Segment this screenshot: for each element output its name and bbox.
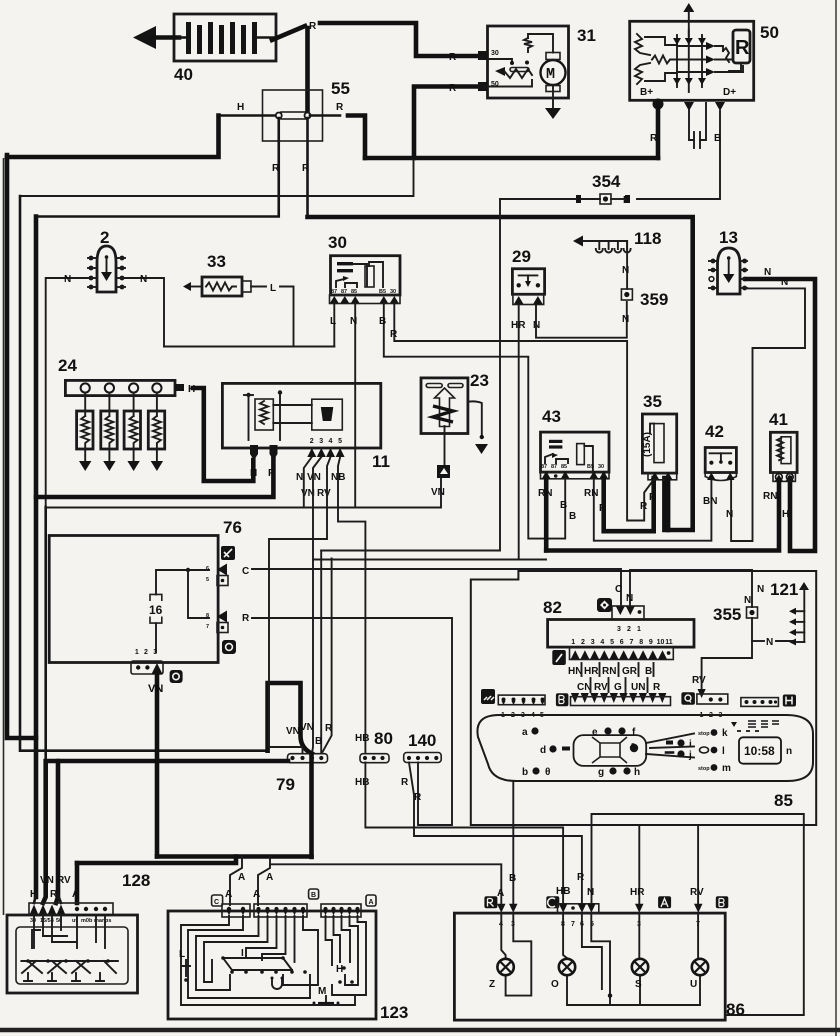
svg-text:121: 121 — [770, 580, 798, 599]
svg-text:41: 41 — [769, 410, 788, 429]
123 strip 2 — [254, 904, 307, 917]
svg-text:6: 6 — [620, 639, 624, 646]
svg-text:7: 7 — [206, 624, 209, 630]
svg-text:354: 354 — [592, 172, 621, 191]
svg-text:3: 3 — [617, 626, 621, 633]
svg-text:B+: B+ — [640, 87, 653, 98]
svg-text:1: 1 — [637, 626, 641, 633]
fuse 16 — [149, 594, 163, 623]
svg-text:N: N — [622, 265, 629, 276]
wire: A drop to 128 — [75, 863, 80, 903]
wire: 23 right to ground arrow — [468, 401, 482, 437]
svg-text:D+: D+ — [723, 87, 736, 98]
svg-text:B: B — [311, 892, 316, 899]
wire: A tap to 123 strip2 — [258, 857, 270, 905]
connector 354 — [576, 172, 630, 204]
svg-text:4: 4 — [600, 639, 604, 646]
svg-text:R: R — [401, 777, 409, 788]
svg-text:13: 13 — [719, 228, 738, 247]
svg-text:N: N — [781, 277, 788, 288]
svg-text:R: R — [336, 102, 344, 113]
ground (starter 31) — [545, 108, 561, 119]
svg-text:3: 3 — [153, 649, 157, 656]
svg-text:N: N — [757, 584, 764, 595]
svg-text:M: M — [546, 66, 555, 83]
sensor 23 — [421, 371, 489, 465]
svg-text:N: N — [64, 274, 71, 285]
wire: R feed line y196 — [20, 160, 414, 196]
svg-text:g: g — [598, 767, 604, 778]
svg-text:B: B — [379, 316, 386, 327]
icon H (panel right) — [783, 695, 796, 707]
fan lines to right indicators — [646, 734, 694, 744]
svg-text:Z: Z — [489, 979, 495, 990]
wire: 43 pin30 R thick to fuse 35 — [604, 478, 654, 531]
76 pin C (6/5) — [206, 564, 249, 586]
svg-text:N: N — [587, 887, 594, 898]
panel top strip left (5 pin) — [498, 695, 545, 719]
svg-text:87: 87 — [551, 464, 557, 470]
panel top strip RV (1 2 3) — [692, 675, 728, 719]
svg-text:N: N — [744, 595, 751, 606]
wire: 29 N to 359 — [536, 302, 627, 338]
wire: fuse 40 to node R (diagonal) — [272, 26, 305, 40]
wire: 43 pin87 RN thick to bus — [544, 479, 549, 551]
wire: 55 H to left bus — [7, 116, 219, 158]
svg-text:35: 35 — [643, 392, 662, 411]
svg-text:k: k — [722, 728, 728, 739]
svg-text:RN: RN — [602, 666, 616, 677]
lamp U — [690, 959, 708, 990]
82-to-panel arrows — [571, 693, 667, 703]
connector 82 — [543, 584, 694, 660]
svg-text:θ: θ — [545, 767, 550, 778]
svg-text:N: N — [764, 267, 771, 278]
mid indicators i j — [666, 741, 673, 745]
svg-text:29: 29 — [512, 247, 531, 266]
svg-text:B: B — [714, 133, 721, 144]
wire: 79 B line y550 — [321, 199, 500, 551]
solenoid 41 — [763, 410, 797, 520]
svg-text:118: 118 — [634, 229, 661, 248]
svg-text:82: 82 — [543, 598, 562, 617]
svg-text:16: 16 — [149, 603, 163, 617]
svg-text:m0b: m0b — [81, 918, 93, 924]
svg-text:2: 2 — [100, 228, 109, 247]
76 pin R (8/7) — [206, 611, 250, 633]
N net line y507 — [46, 478, 441, 508]
wire: 355 down to N / comb — [702, 618, 752, 689]
svg-text:R: R — [272, 163, 280, 174]
starter motor unit 31 — [478, 26, 596, 108]
svg-text:1: 1 — [135, 649, 139, 656]
svg-text:8: 8 — [639, 639, 643, 646]
svg-text:l: l — [722, 746, 725, 757]
icon A (86) — [658, 896, 671, 908]
wire: relay30 pin B to relay43 pin85 — [384, 303, 565, 539]
control unit 76 — [49, 518, 242, 663]
sensor 13 — [709, 228, 747, 294]
svg-text:2: 2 — [310, 438, 314, 445]
86 internal: lamp Z circuit — [501, 913, 505, 959]
svg-text:m: m — [722, 763, 731, 774]
svg-text:140: 140 — [408, 731, 436, 750]
svg-text:HB: HB — [556, 886, 570, 897]
svg-text:R: R — [325, 723, 333, 734]
svg-text:79: 79 — [276, 775, 295, 794]
svg-text:H: H — [782, 509, 789, 520]
alternator B+ pin — [653, 99, 664, 110]
icon C (123) — [212, 895, 223, 906]
svg-text:76: 76 — [223, 518, 242, 537]
wire: 29 HR down and left — [518, 305, 520, 560]
svg-text:C: C — [615, 584, 622, 595]
svg-text:N: N — [350, 316, 357, 327]
svg-text:A: A — [225, 889, 232, 900]
123 ground M — [313, 986, 340, 1005]
svg-text:R: R — [650, 133, 658, 144]
glow plug rail 24 — [58, 356, 195, 396]
svg-text:B: B — [560, 500, 567, 511]
icon connector (76 top right) — [221, 546, 235, 560]
left bus (x20) — [20, 196, 268, 751]
icon A (123) — [366, 895, 376, 906]
connector 80 — [355, 729, 393, 788]
ground comb 121 — [770, 580, 809, 646]
wire: 79 thick down to A bus — [309, 754, 314, 857]
svg-text:stop: stop — [698, 766, 710, 772]
svg-text:A: A — [266, 872, 273, 883]
pin jogs into 128 — [34, 895, 36, 903]
svg-text:A: A — [497, 888, 504, 899]
icon B (123) — [309, 889, 319, 899]
svg-text:R: R — [640, 501, 648, 512]
svg-text:HB: HB — [355, 777, 369, 788]
wire: 76 VN thick to connector 79 — [155, 672, 160, 857]
svg-text:8: 8 — [206, 613, 209, 619]
instrument cluster outer box 85 — [471, 571, 816, 825]
svg-text:B: B — [315, 736, 322, 747]
glow plug resistors 24 — [77, 393, 165, 461]
svg-text:R: R — [735, 37, 750, 59]
alternator 50 — [630, 3, 779, 100]
icon connector (76 right lower) — [222, 640, 236, 654]
icon Q (panel mid-right) — [681, 692, 695, 705]
svg-text:RV: RV — [692, 675, 706, 686]
page right border rule — [835, 0, 837, 1036]
wire: 55 R right drop to big R feed — [306, 118, 309, 217]
fuse box 40 — [133, 14, 276, 84]
ignition distributor 2 — [88, 228, 125, 292]
svg-text:BN: BN — [703, 496, 717, 507]
coil 11 pins H R — [250, 445, 258, 460]
RN thick bus y550 to 41 — [546, 481, 779, 551]
svg-text:85: 85 — [561, 464, 567, 470]
relay 43 — [541, 407, 610, 479]
wire: VN overpass loop to 79 pin3 — [268, 683, 312, 754]
svg-text:N: N — [140, 274, 147, 285]
lamp O — [551, 959, 575, 990]
svg-text:11: 11 — [665, 639, 673, 646]
svg-text:A: A — [72, 889, 79, 900]
svg-text:a: a — [522, 727, 528, 738]
wire: R line 76 — [252, 618, 452, 825]
123 switch H — [336, 964, 354, 984]
svg-text:j: j — [688, 750, 692, 761]
car icon — [574, 735, 647, 766]
sensor 33 — [183, 252, 294, 347]
svg-text:stop: stop — [698, 731, 710, 737]
svg-text:B5: B5 — [587, 464, 594, 470]
svg-text:30: 30 — [390, 289, 396, 295]
wire: A tap to 123 strip1 — [230, 857, 242, 905]
wire: 86 HR from cluster — [638, 825, 640, 903]
svg-text:128: 128 — [122, 871, 150, 890]
A bus lower branch y863 — [77, 857, 236, 864]
wires inside 76 — [156, 570, 209, 594]
svg-text:85: 85 — [774, 791, 793, 810]
svg-text:H: H — [250, 468, 257, 479]
svg-text:5: 5 — [610, 639, 614, 646]
svg-text:31: 31 — [577, 26, 596, 45]
svg-text:123: 123 — [380, 1003, 408, 1022]
main R bus y158 — [365, 156, 658, 161]
svg-text:RV: RV — [57, 875, 71, 886]
icon B (86 far right) — [716, 896, 729, 908]
svg-text:d: d — [540, 745, 546, 756]
svg-text:RV: RV — [594, 682, 608, 693]
page bottom border rule — [0, 1028, 840, 1032]
svg-text:N: N — [726, 509, 733, 520]
svg-text:30: 30 — [491, 50, 499, 57]
svg-text:RN: RN — [538, 488, 552, 499]
svg-text:h: h — [634, 767, 640, 778]
svg-text:HR: HR — [584, 666, 599, 677]
icon F (panel left) — [481, 689, 495, 704]
svg-text:R: R — [599, 503, 607, 514]
icon connector (82 left) — [552, 650, 566, 665]
panel top-right symbols — [731, 719, 779, 731]
svg-text:G: G — [614, 682, 622, 693]
wire: 2 right N — [125, 278, 164, 347]
wire: A line to 86 pin4 — [270, 864, 501, 903]
svg-text:i: i — [689, 739, 692, 750]
123 strip 3 — [321, 904, 361, 917]
svg-text:(15A): (15A) — [642, 432, 653, 457]
svg-text:7: 7 — [571, 921, 575, 928]
svg-text:L: L — [179, 949, 185, 960]
svg-text:O: O — [551, 979, 559, 990]
svg-text:N: N — [296, 472, 303, 483]
A bus y856 — [157, 854, 312, 859]
86 top pins — [497, 904, 506, 913]
svg-text:VN: VN — [431, 487, 445, 498]
svg-text:24: 24 — [58, 356, 77, 375]
icon connector (82 top) — [597, 598, 612, 612]
86 internal: lamp O circuit — [563, 913, 567, 958]
svg-text:N: N — [622, 314, 629, 325]
svg-text:2: 2 — [581, 639, 585, 646]
switch 29 — [511, 247, 545, 331]
svg-text:RN: RN — [763, 491, 777, 502]
svg-text:4: 4 — [329, 438, 333, 445]
svg-text:A: A — [253, 889, 260, 900]
svg-text:A: A — [238, 872, 245, 883]
wire: 118 to 359 — [626, 241, 628, 289]
svg-text:ps: ps — [105, 918, 111, 924]
page left border rule — [3, 158, 5, 915]
wire: relay30 pin N — [354, 303, 356, 508]
wire: 11 pin3 VN down to connector 79 — [312, 457, 321, 753]
123 strip 1 — [222, 904, 250, 917]
connector 55 — [219, 79, 366, 158]
svg-text:L: L — [330, 316, 336, 327]
svg-text:e: e — [592, 727, 598, 738]
wire: 11 pin5 NB to HB line — [338, 457, 365, 753]
86 internal: lamp S circuit — [638, 913, 640, 959]
thick feed line y761 to 128 — [43, 761, 288, 903]
fuse 35 (15A) — [642, 392, 677, 480]
svg-text:85: 85 — [351, 289, 357, 295]
left bus H (x7) — [7, 155, 36, 738]
svg-text:RV: RV — [690, 887, 704, 898]
svg-text:9: 9 — [649, 639, 653, 646]
ground arrows under 24 — [79, 461, 91, 471]
lamp Z — [489, 959, 514, 990]
svg-text:N: N — [626, 593, 633, 604]
alternator mid pin arrows — [684, 102, 694, 111]
svg-text:50: 50 — [760, 23, 779, 42]
svg-text:10: 10 — [657, 639, 665, 646]
ground (23) — [475, 444, 488, 454]
lamp S — [632, 959, 648, 990]
svg-text:23: 23 — [470, 371, 489, 390]
svg-text:U: U — [690, 979, 697, 990]
svg-text:355: 355 — [713, 605, 741, 624]
panel top strip middle — [571, 697, 671, 706]
svg-text:86: 86 — [726, 1000, 745, 1019]
svg-text:R: R — [242, 613, 250, 624]
wire: 55 R left drop — [36, 118, 279, 217]
76 bottom pin strip 1 2 3 — [131, 649, 163, 674]
svg-text:CN: CN — [577, 682, 591, 693]
svg-text:RV: RV — [317, 488, 331, 499]
connector 359 — [621, 289, 668, 325]
86 internal: lamp U circuit — [698, 913, 700, 959]
connector 355 — [713, 584, 764, 624]
svg-text:C: C — [242, 566, 249, 577]
wire: R drop (from HR line) to 79 pin4 — [323, 559, 332, 753]
svg-text:87: 87 — [541, 464, 547, 470]
svg-text:359: 359 — [640, 290, 668, 309]
svg-text:R: R — [577, 872, 585, 883]
svg-text:R: R — [449, 52, 457, 63]
icon (86 far left) — [484, 896, 497, 908]
svg-text:A: A — [369, 899, 374, 906]
svg-text:C: C — [214, 899, 219, 906]
wire: relay30 pin L — [333, 303, 335, 347]
wire: 86 B up to panel — [512, 781, 514, 903]
capacitor at alternator — [689, 110, 694, 140]
svg-text:H: H — [237, 102, 244, 113]
clock 10:58 — [739, 737, 792, 763]
wire: 86 N to right loop — [592, 814, 804, 1015]
svg-text:R: R — [302, 163, 310, 174]
svg-text:R: R — [390, 329, 398, 340]
svg-text:R: R — [449, 83, 457, 94]
svg-text:N: N — [766, 637, 773, 648]
svg-text:B: B — [509, 873, 516, 884]
wire: 11 pin4 to x269 drop — [269, 457, 331, 753]
svg-text:2: 2 — [627, 626, 631, 633]
svg-text:VN: VN — [307, 472, 321, 483]
wire: 24 H to coil 11 pin H (thick U) — [193, 388, 253, 481]
svg-text:6: 6 — [206, 566, 209, 572]
svg-text:RN: RN — [584, 488, 598, 499]
switch 42 — [703, 422, 736, 520]
wire: alternator D+ B down to 354 line — [637, 111, 720, 199]
svg-text:33: 33 — [207, 252, 226, 271]
switch unit 123 — [168, 911, 408, 1022]
wire: L/N net y346 — [164, 346, 334, 348]
svg-text:40: 40 — [174, 65, 193, 84]
connector 79 — [276, 722, 328, 794]
svg-text:R: R — [309, 21, 317, 32]
svg-text:L: L — [270, 283, 276, 294]
svg-text:VN: VN — [148, 683, 163, 695]
svg-text:R: R — [414, 792, 422, 803]
wire: 2 left N — [46, 278, 88, 509]
svg-text:43: 43 — [542, 407, 561, 426]
svg-text:87: 87 — [341, 289, 347, 295]
82 wire labels row 2 — [577, 678, 661, 693]
svg-text:B5: B5 — [379, 289, 386, 295]
svg-text:2: 2 — [144, 649, 148, 656]
wire: 140 R to 86 R — [409, 763, 582, 904]
svg-text:H: H — [336, 964, 343, 975]
wire R bus to starter pin 30 — [320, 23, 480, 56]
lamp unit 86 — [454, 913, 745, 1020]
wire: node R down to connector 55 — [305, 28, 310, 113]
svg-text:VN: VN — [286, 726, 300, 737]
connector comb 118 — [573, 229, 661, 253]
svg-text:3: 3 — [591, 639, 595, 646]
svg-text:3: 3 — [319, 438, 323, 445]
svg-text:87: 87 — [331, 289, 337, 295]
relay 30 — [328, 233, 400, 304]
svg-text:55: 55 — [331, 79, 350, 98]
svg-text:80: 80 — [374, 729, 393, 748]
svg-text:b: b — [522, 767, 528, 778]
wire: 13 N1 thick to 41 right pin — [747, 279, 815, 551]
panel top strip right (4 pin) — [741, 698, 779, 707]
123 internal maze wires — [181, 916, 366, 1005]
svg-text:B: B — [645, 666, 652, 677]
svg-text:R: R — [653, 682, 661, 693]
connector VN below 23 — [437, 465, 450, 478]
wire R branch to starter pin 50 — [414, 87, 480, 159]
connector 140 — [401, 731, 441, 803]
svg-text:11: 11 — [372, 452, 390, 471]
123 central switch I — [221, 948, 307, 989]
instrument panel face — [477, 715, 813, 781]
wire: 13 N2 to 42 right pin — [731, 288, 805, 541]
svg-text:HN: HN — [568, 666, 582, 677]
123 switch L — [179, 949, 190, 982]
svg-text:VN: VN — [40, 875, 54, 886]
svg-text:HR: HR — [630, 887, 645, 898]
wire: C line 76 to 82 and 355 — [252, 569, 621, 606]
